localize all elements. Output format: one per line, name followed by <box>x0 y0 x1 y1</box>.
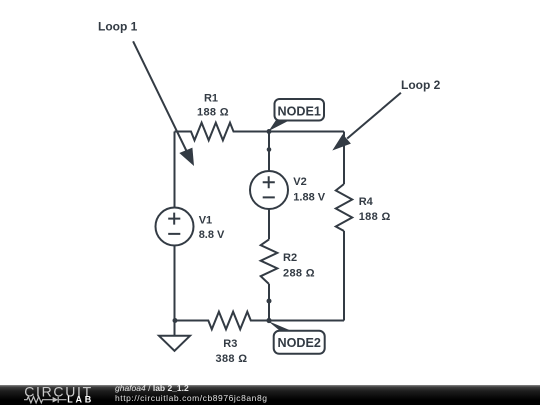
svg-text:NODE1: NODE1 <box>278 104 321 118</box>
svg-text:V1: V1 <box>199 214 212 226</box>
svg-text:V2: V2 <box>293 176 306 188</box>
svg-text:R4: R4 <box>359 196 374 208</box>
svg-text:NODE2: NODE2 <box>278 336 321 350</box>
svg-text:R1: R1 <box>204 93 218 105</box>
svg-text:288 Ω: 288 Ω <box>283 267 315 279</box>
svg-text:R3: R3 <box>223 338 237 350</box>
svg-text:188 Ω: 188 Ω <box>359 211 391 223</box>
svg-text:R2: R2 <box>283 252 297 264</box>
svg-text:388 Ω: 388 Ω <box>216 353 248 365</box>
svg-text:8.8 V: 8.8 V <box>199 229 225 241</box>
svg-text:LAB: LAB <box>67 394 92 404</box>
svg-text:Loop 1: Loop 1 <box>98 19 138 33</box>
svg-text:Loop 2: Loop 2 <box>401 78 441 92</box>
svg-text:1.88 V: 1.88 V <box>293 191 325 203</box>
svg-text:188 Ω: 188 Ω <box>197 106 229 118</box>
